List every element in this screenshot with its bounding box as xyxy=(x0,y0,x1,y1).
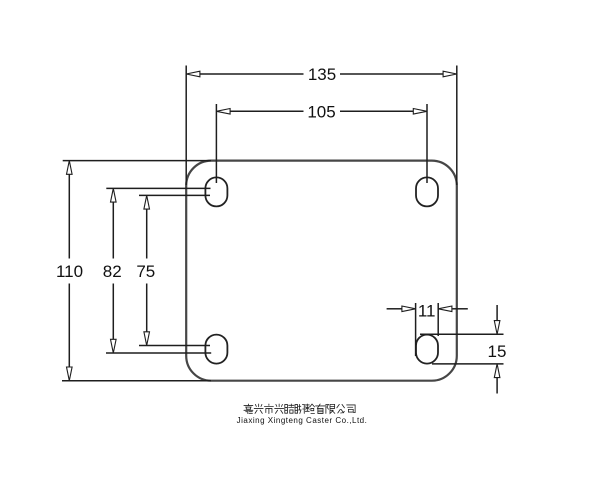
dim 15 extension line top xyxy=(420,333,504,335)
dim 110 extension line bottom xyxy=(62,380,211,382)
slot hole top-right xyxy=(416,177,438,206)
dim 135 line xyxy=(200,73,443,75)
slot hole top-left xyxy=(205,177,227,206)
dim 110 arrow bottom xyxy=(67,367,73,381)
svg-text:15: 15 xyxy=(488,342,507,361)
dim 135 extension line right xyxy=(456,66,458,186)
dim 75 extension line bottom xyxy=(139,345,210,347)
svg-text:Jiaxing Xingteng Caster Co.,Lt: Jiaxing Xingteng Caster Co.,Ltd. xyxy=(237,416,368,425)
svg-text:135: 135 xyxy=(308,65,336,84)
dim 105 extension line right xyxy=(426,104,428,183)
dim 11 leader right xyxy=(453,308,468,310)
dim 15 arrow bottom xyxy=(494,364,500,378)
dim 105 line xyxy=(230,110,413,112)
dim 75 arrow bottom xyxy=(144,332,150,346)
dim 11 leader left xyxy=(387,308,402,310)
dim 110 arrow top xyxy=(67,161,73,175)
dim 105 arrow left xyxy=(216,109,230,115)
dim 82 arrow bottom xyxy=(111,339,117,353)
dim 135 arrow right xyxy=(443,71,457,77)
dim 110 extension line top xyxy=(63,160,211,162)
svg-text:11: 11 xyxy=(418,302,436,321)
slot hole bottom-right xyxy=(416,335,438,364)
svg-text:82: 82 xyxy=(103,262,122,281)
svg-text:75: 75 xyxy=(136,262,155,281)
dim 11 extension line left xyxy=(415,303,417,356)
dim 11 extension line right xyxy=(437,303,439,336)
dim 11 arrow right xyxy=(438,306,452,312)
dim 105 extension line left xyxy=(215,104,217,183)
dim 75 extension line top xyxy=(139,194,210,196)
dim 15 leader top xyxy=(496,305,498,321)
dim 75 line xyxy=(146,209,148,332)
dim 82 extension line bottom xyxy=(106,352,211,354)
dim 82 extension line top xyxy=(106,187,210,189)
dim 105 arrow right xyxy=(413,109,427,115)
plate outline (135x110 mounting plate, rounded corners) xyxy=(186,161,457,381)
svg-text:110: 110 xyxy=(56,262,83,281)
dim 11 arrow left xyxy=(402,306,416,312)
dim 75 arrow top xyxy=(144,195,150,209)
dim 135 arrow left xyxy=(186,71,200,77)
svg-text:105: 105 xyxy=(307,102,335,121)
dim 110 line xyxy=(68,174,70,367)
dim 82 line xyxy=(112,202,114,339)
company name (Chinese glyph strokes) xyxy=(244,404,355,414)
dim 15 leader bottom xyxy=(496,378,498,394)
dim 82 arrow top xyxy=(111,188,117,202)
slot hole bottom-left xyxy=(205,335,227,364)
dim 15 extension line bottom xyxy=(432,363,504,365)
dim 135 extension line left xyxy=(185,66,187,186)
dim 15 arrow top xyxy=(494,321,500,335)
